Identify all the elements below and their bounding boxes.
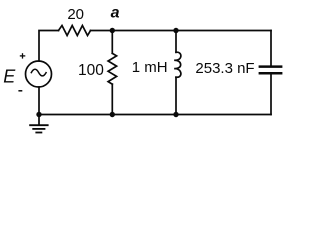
wire top-left: source to resistor [39, 31, 59, 62]
ground symbol [29, 125, 48, 132]
wire right rail down to capacitor top plate [270, 31, 272, 66]
wire: source bottom to ground node [38, 87, 40, 125]
svg-text:1 mH: 1 mH [132, 59, 168, 76]
junction dots [36, 28, 178, 117]
source E: circle [26, 61, 52, 87]
node a dot [110, 28, 115, 33]
wire: inductor bottom lead [175, 77, 177, 114]
svg-text:E: E [3, 67, 16, 87]
wire capacitor bottom plate to bottom wire [270, 75, 272, 115]
svg-text:a: a [111, 5, 120, 22]
bottom junction at source [36, 112, 41, 117]
bottom junction at 100 ohm [110, 112, 115, 117]
capacitor C plates 253.3 nF [259, 67, 283, 74]
bottom wire [39, 114, 271, 116]
bottom junction at inductor [173, 112, 178, 117]
inductor top junction [173, 28, 178, 33]
svg-text:20: 20 [67, 6, 84, 23]
resistor R 100 (vertical zigzag) [108, 53, 117, 84]
svg-text:100: 100 [78, 62, 104, 79]
plus sign of source [20, 53, 26, 58]
minus sign of source [18, 90, 22, 92]
wire: resistor 100 to bottom [111, 84, 113, 114]
source E: sine wave [31, 69, 46, 76]
svg-text:253.3 nF: 253.3 nF [195, 60, 254, 77]
inductor L 1 mH (coil) [174, 52, 181, 77]
resistor R 20 (horizontal zigzag) [59, 26, 91, 36]
wire: resistor to node a and on to right rail [91, 30, 272, 32]
wire: inductor top lead [175, 31, 177, 53]
wire: node a down to resistor 100 [111, 31, 113, 54]
